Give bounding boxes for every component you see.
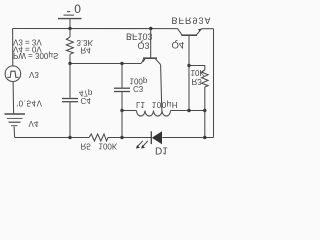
wire battery to corner (13, 126, 16, 137)
resistor R3 (189, 66, 208, 138)
label 100p (130, 76, 148, 85)
wire bottom rail mid (108, 137, 151, 139)
label R5 (81, 142, 92, 151)
svg-text:100µH: 100µH (152, 100, 178, 109)
label 10K (191, 68, 206, 77)
wire L1 rail y110.5 (122, 110, 137, 112)
wire top rail right segment (202, 28, 214, 30)
svg-text:C4: C4 (81, 96, 92, 105)
LED D1 (136, 131, 162, 148)
wire mid rail y63.5 (70, 63, 141, 65)
svg-text:R4: R4 (81, 45, 92, 54)
wire L1 to R3 column (171, 110, 205, 112)
node junction Q4 base bottom (187, 109, 190, 112)
svg-text:V4: V4 (29, 119, 39, 128)
label battery value (17, 99, 43, 108)
label 3.3K (77, 38, 94, 47)
svg-text:R5: R5 (81, 142, 92, 151)
battery V4 (5, 114, 26, 126)
svg-text:'0.54V: '0.54V (17, 99, 43, 108)
node junction R4-C4 (68, 62, 71, 65)
wire top rail (13, 28, 178, 30)
label 100K (99, 142, 118, 151)
svg-text:Q3: Q3 (138, 40, 150, 50)
node junction LED branch (120, 136, 123, 139)
svg-text:L1: L1 (136, 100, 145, 109)
inductor L1 (137, 111, 171, 117)
node junction Q4 base / R3 (187, 64, 190, 67)
node 0 label (74, 1, 81, 15)
transistor Q4 (178, 29, 202, 111)
label Q3 (138, 40, 150, 50)
capacitor C3 (114, 64, 130, 111)
svg-text:0: 0 (74, 1, 81, 15)
node junction C3 top (120, 62, 123, 65)
label Q4 (172, 39, 185, 50)
wire left border upper (12, 29, 14, 66)
label 100uH (152, 100, 178, 109)
wire left lower (source to battery) (12, 81, 15, 113)
svg-text:BFR93A: BFR93A (172, 16, 212, 26)
svg-text:10K: 10K (191, 68, 206, 77)
svg-text:BF103: BF103 (126, 32, 153, 42)
node junction C4 bottom (68, 136, 71, 139)
ground (58, 12, 82, 29)
wire right border (213, 29, 215, 138)
wire bottom rail left (15, 137, 89, 139)
label C4 (81, 96, 92, 105)
capacitor C4 (62, 64, 78, 138)
svg-text:PW = 300µS: PW = 300µS (13, 51, 58, 60)
node junction Q3 base top (149, 27, 152, 30)
svg-text:C3: C3 (133, 84, 144, 93)
label D1 (155, 144, 168, 155)
node junction R3 bottom rail (203, 109, 206, 112)
label V3 (29, 70, 39, 79)
wire bottom rail right (162, 137, 213, 139)
label BF103 (126, 32, 153, 42)
label BFR93A (172, 16, 212, 26)
svg-text:Q4: Q4 (172, 39, 185, 50)
resistor R4 (66, 29, 73, 64)
node junction C3 bottom (120, 109, 123, 112)
node junction R3 bottom (203, 136, 206, 139)
label R4 (81, 45, 92, 54)
transistor Q3 (141, 29, 162, 111)
svg-text:D1: D1 (155, 144, 168, 155)
svg-text:V3: V3 (29, 70, 39, 79)
label C3 (133, 84, 144, 93)
svg-text:R3: R3 (192, 77, 203, 86)
label 47p (79, 89, 93, 98)
svg-text:100K: 100K (99, 142, 118, 151)
annotation text block (13, 38, 58, 61)
resistor R5 (89, 134, 108, 141)
node junction ground-toprail (68, 27, 71, 30)
wire C3 bottom to LED rail (121, 111, 123, 138)
label R3 (192, 77, 203, 86)
label L1 (136, 100, 145, 109)
label V4 (29, 119, 39, 128)
pulse source V3 (5, 66, 21, 82)
